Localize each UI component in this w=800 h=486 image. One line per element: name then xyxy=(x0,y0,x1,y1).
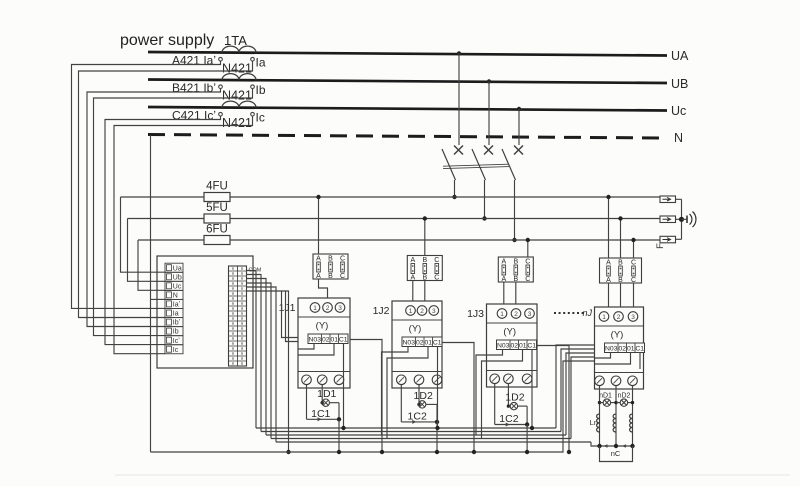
breaker blade A xyxy=(442,149,456,180)
arrester fuse F3 xyxy=(660,236,676,243)
relay 1J3 bottom terminals xyxy=(490,374,532,384)
bus UA xyxy=(148,49,689,63)
junction on bus UC xyxy=(517,107,521,111)
wire: F1 to common xyxy=(676,198,682,200)
wire: switch leg B lower xyxy=(484,180,486,219)
breaker blade C xyxy=(502,149,516,180)
svg-text:C421 Icʼ: C421 Icʼ xyxy=(172,109,216,123)
junction: leg B to distribution wire xyxy=(482,216,486,220)
wire: COM 2 to bottom bundle xyxy=(247,275,262,432)
svg-text:C1: C1 xyxy=(527,342,536,349)
wire: N stub into strip xyxy=(151,298,166,300)
wire: relay 1J1 right-side return to N bundle xyxy=(350,340,382,453)
svg-text:1C2: 1C2 xyxy=(408,410,427,422)
wire: relay 1J3 N row internal routing xyxy=(487,350,533,367)
bundle wire 3 xyxy=(266,434,566,436)
svg-text:1C2: 1C2 xyxy=(499,413,518,425)
dotted continuation line xyxy=(554,312,584,314)
svg-text:B: B xyxy=(328,256,333,263)
wire: switch leg C lower xyxy=(514,180,516,240)
svg-text:A: A xyxy=(410,275,415,282)
wire: 5FU to terminal strip xyxy=(128,219,166,282)
junction lamp 1D1 output xyxy=(337,417,341,421)
relay 1J2 bottom terminals xyxy=(397,375,442,385)
svg-text:1: 1 xyxy=(313,305,317,312)
svg-text:F: F xyxy=(655,243,666,249)
svg-text:UA: UA xyxy=(671,49,689,63)
svg-text:1: 1 xyxy=(500,311,504,318)
lamp nD2 xyxy=(614,399,634,406)
wire: COM 1 to bottom bundle xyxy=(247,271,257,429)
svg-text:5FU: 5FU xyxy=(206,202,228,214)
bundle wire 1 xyxy=(256,427,556,429)
relay 1J1 bottom terminals xyxy=(302,375,344,385)
junction COM6/N xyxy=(286,450,290,454)
indicator lamp 1D2 assembly xyxy=(401,385,437,424)
terminal block T1J2 (A B C) xyxy=(407,256,442,282)
wire: CT B terminal Ib to terminal strip xyxy=(94,88,253,335)
CT phase A secondary terminals xyxy=(219,57,255,61)
svg-text:2: 2 xyxy=(617,314,621,321)
wire: relay 1J2 N row internal routing xyxy=(392,347,438,364)
svg-text:Ic: Ic xyxy=(256,111,265,125)
fuse 4FU xyxy=(204,181,230,202)
wire: block 1J3 to relay top xyxy=(504,282,516,304)
wire: switch leg A lower xyxy=(454,180,456,197)
svg-text:1J2: 1J2 xyxy=(373,305,390,317)
svg-text:A: A xyxy=(606,260,611,267)
wire: block nJ to relay top xyxy=(609,283,634,307)
wire: relay 1J2 C1 terminal down to bundle xyxy=(437,363,439,428)
wire: relay 1J1 C1 terminal down to bundle xyxy=(343,360,345,428)
svg-text:6FU: 6FU xyxy=(206,224,228,236)
wire: feeds to block nJ A B C xyxy=(609,197,634,258)
wire: block 1J2 to relay top xyxy=(413,281,425,302)
svg-text:A: A xyxy=(501,259,506,266)
junction: leg C to distribution wire xyxy=(512,238,516,242)
relay nJ terminal row N03 02 01 C1 xyxy=(605,343,645,353)
CT phase C secondary terminals xyxy=(219,112,255,116)
junction: leg A to distribution wire xyxy=(452,195,456,199)
wire: 4FU to terminal strip xyxy=(121,197,166,272)
wire: 6FU line feed to block C (1J3) xyxy=(527,240,529,257)
CT 1TA phase A winding arcs xyxy=(222,46,256,52)
wire: relay 1J3 right-side return to N bundle xyxy=(537,346,569,453)
svg-text:(Y): (Y) xyxy=(503,327,516,338)
svg-text:nJ: nJ xyxy=(582,308,592,318)
svg-text:Ia: Ia xyxy=(173,311,179,318)
svg-text:C: C xyxy=(340,256,345,263)
svg-text:02: 02 xyxy=(618,345,626,352)
labels nD1 nD2 xyxy=(599,393,630,400)
svg-text:Iaʼ: Iaʼ xyxy=(173,301,181,309)
breaker blade B xyxy=(472,149,486,180)
wire: switch leg A upper xyxy=(458,54,460,146)
scan fold artifact line xyxy=(115,474,790,476)
svg-text:Ibʼ: Ibʼ xyxy=(173,319,181,327)
svg-text:N421: N421 xyxy=(222,116,252,130)
svg-text:3: 3 xyxy=(432,308,436,315)
wire: lamp 1D1 to N bundle xyxy=(338,419,340,452)
bus UB xyxy=(148,77,688,91)
svg-text:nC: nC xyxy=(611,449,621,458)
svg-text:02: 02 xyxy=(322,336,330,343)
svg-text:02: 02 xyxy=(510,342,518,349)
svg-text:B: B xyxy=(513,276,518,283)
fuse X mark leg B xyxy=(484,146,493,155)
wire: CT A terminal Ia to terminal strip xyxy=(79,61,253,318)
svg-text:01: 01 xyxy=(519,342,527,349)
svg-text:2: 2 xyxy=(326,305,330,312)
svg-text:Ua: Ua xyxy=(173,265,182,272)
svg-text:(Y): (Y) xyxy=(316,321,329,332)
inductor coil at x=632.5 xyxy=(630,414,633,432)
svg-text:2: 2 xyxy=(514,311,518,318)
svg-text:Uc: Uc xyxy=(173,283,182,290)
svg-text:Uc: Uc xyxy=(671,104,686,118)
wire: bundle risers into nJ xyxy=(556,345,595,428)
wire: relay 1J2 right-side return to N bundle xyxy=(442,343,474,453)
svg-text:B: B xyxy=(422,257,427,264)
svg-text:Ib: Ib xyxy=(256,83,266,97)
bus N (dashed) xyxy=(148,131,683,145)
bus Uc xyxy=(148,104,686,118)
junction lamp 1D2 output xyxy=(435,420,439,424)
terminal strip rows Ua..Ic xyxy=(165,263,183,354)
svg-text:C: C xyxy=(434,257,439,264)
relay 1J1 top terminals 1 2 3 xyxy=(310,303,345,313)
relay unit nJ box xyxy=(595,307,644,389)
wire: 6FU to terminal strip xyxy=(138,240,165,290)
svg-text:Ub: Ub xyxy=(173,274,182,281)
svg-text:C1: C1 xyxy=(635,345,644,352)
CT phase B secondary terminals xyxy=(219,85,255,89)
wire: left entries 1J3 xyxy=(476,355,487,435)
wire: bundle 5 into nC xyxy=(591,442,600,446)
arrester fuse F1 xyxy=(660,196,676,203)
breaker linkage bar (double line) xyxy=(443,164,509,168)
wire: 5FU line feed to block B (1J2) xyxy=(424,219,426,256)
svg-text:1: 1 xyxy=(409,308,413,315)
bundle wire 4 xyxy=(271,438,571,440)
relay 1J1 terminal row N03 02 01 C1 xyxy=(308,334,348,344)
svg-text:1J3: 1J3 xyxy=(467,308,484,320)
svg-text:4FU: 4FU xyxy=(206,181,228,193)
relay 1J2 top terminals 1 2 3 xyxy=(406,306,439,316)
wire: COM to 1J1 left entry xyxy=(282,291,299,338)
wire: relay 1J1 N row internal routing xyxy=(298,344,344,361)
svg-text:2: 2 xyxy=(420,308,424,315)
svg-text:1D2: 1D2 xyxy=(414,390,433,402)
bundle N wire (bottom) xyxy=(151,361,595,452)
wire: arrester common vertical xyxy=(681,199,683,239)
wire: CT C terminal Ic to terminal strip xyxy=(114,116,253,354)
terminal strip outer box xyxy=(157,256,253,368)
relay 1J3 top terminals 1 2 3 xyxy=(497,309,534,319)
terminal block TnJ (A B C) xyxy=(600,258,642,284)
svg-text:power supply: power supply xyxy=(120,32,214,49)
wire: F2 to common xyxy=(676,218,682,220)
svg-text:1D2: 1D2 xyxy=(505,392,524,404)
wire: left entries 1J2 xyxy=(382,352,393,435)
wire: lamp 1D2 to N bundle xyxy=(436,422,438,452)
lamp nD1 xyxy=(598,399,616,406)
relay nJ bottom terminals xyxy=(595,376,638,386)
relay unit 1J3 box xyxy=(487,304,538,387)
wire: CT B terminal B421 Ib&#700; to terminal strip xyxy=(87,88,221,326)
svg-text:C: C xyxy=(525,276,530,283)
wire: relay 1J3 C1 terminal down to bundle xyxy=(531,366,533,428)
bundle wire 2 xyxy=(261,431,561,433)
svg-text:Ic: Ic xyxy=(173,347,179,354)
svg-text:01: 01 xyxy=(627,345,635,352)
wire: F3 to common xyxy=(676,238,682,240)
svg-text:1TA: 1TA xyxy=(224,33,247,48)
svg-text:B: B xyxy=(422,275,427,282)
svg-text:3: 3 xyxy=(338,305,342,312)
fuse 6FU xyxy=(204,224,230,245)
svg-text:C: C xyxy=(631,277,636,284)
relay 1J2 terminal row N03 02 01 C1 xyxy=(402,337,442,347)
svg-text:N: N xyxy=(173,293,178,300)
wire: CT A terminal A421 Ia&#700; to terminal strip xyxy=(72,61,221,309)
relay 1J3 terminal row N03 02 01 C1 xyxy=(497,340,537,350)
svg-text:C1: C1 xyxy=(339,336,348,343)
svg-text:N03: N03 xyxy=(309,336,322,343)
wire: distribution 4FU line xyxy=(121,196,661,198)
svg-text:C1: C1 xyxy=(433,339,442,346)
relay unit 1J1 box xyxy=(298,298,350,388)
svg-text:3: 3 xyxy=(631,314,635,321)
svg-text:A: A xyxy=(606,277,611,284)
svg-text:Ib: Ib xyxy=(173,329,179,336)
svg-text:N03: N03 xyxy=(403,339,416,346)
wire: coil bottom bus nC xyxy=(600,445,633,447)
indicator lamp 1D2 assembly xyxy=(495,384,527,427)
indicator lamp 1D1 assembly xyxy=(307,385,340,422)
wire: lamp 1D2 to N bundle xyxy=(526,425,528,453)
svg-text:3: 3 xyxy=(528,311,532,318)
svg-text:A: A xyxy=(316,256,321,263)
wire: switch leg C upper xyxy=(518,109,520,145)
terminal block T1J3 (A B C) xyxy=(498,257,533,283)
svg-text:C: C xyxy=(631,260,636,267)
inductor coil at x=599.5 xyxy=(597,414,600,432)
junction on bus UA xyxy=(457,51,461,55)
svg-text:02: 02 xyxy=(416,339,424,346)
svg-text:B421 Ibʼ: B421 Ibʼ xyxy=(172,81,216,95)
svg-text:B: B xyxy=(618,260,623,267)
svg-text:N03: N03 xyxy=(605,345,618,352)
CT 1TA phase C winding arcs xyxy=(222,101,256,108)
arrester fuse F2 xyxy=(660,216,676,223)
terminal strip COM block xyxy=(229,266,247,366)
svg-text:B: B xyxy=(618,277,623,284)
junction: arrester common xyxy=(679,217,684,222)
svg-text:A: A xyxy=(501,276,506,283)
svg-text:(Y): (Y) xyxy=(611,330,624,341)
relay nJ top terminals 1 2 3 xyxy=(599,312,638,322)
wire: COM 5 to bottom bundle xyxy=(247,287,277,442)
svg-text:N: N xyxy=(674,131,683,145)
wire: 4FU line feed to block A (1J1) xyxy=(318,197,320,254)
svg-text:B: B xyxy=(513,259,518,266)
svg-text:B: B xyxy=(328,273,333,280)
wire: switch leg B upper xyxy=(488,82,490,146)
wire: distribution 5FU line xyxy=(128,218,661,220)
wire: COM 6 down to N wire xyxy=(247,291,289,452)
svg-text:C: C xyxy=(340,273,345,280)
relay unit 1J2 box xyxy=(392,301,442,388)
earth/antenna symbol xyxy=(682,212,696,228)
CT 1TA phase B winding arcs xyxy=(222,74,256,81)
svg-text:(Y): (Y) xyxy=(409,324,422,335)
wire: nJ bottom terminals down xyxy=(600,386,633,446)
svg-text:nD1: nD1 xyxy=(599,393,612,400)
junction on bus UB xyxy=(487,79,491,83)
svg-text:C: C xyxy=(434,275,439,282)
svg-text:1C1: 1C1 xyxy=(311,408,330,420)
wire: CT C terminal C421 Ic&#700; to terminal strip xyxy=(105,116,221,345)
fuse X mark leg C xyxy=(514,146,523,155)
svg-text:N421: N421 xyxy=(222,89,252,103)
svg-text:01: 01 xyxy=(330,336,338,343)
svg-text:A421 Iaʼ: A421 Iaʼ xyxy=(172,54,216,68)
fuse X mark leg A xyxy=(454,146,463,155)
arrows on nC bus xyxy=(604,444,627,448)
wire: relay nJ N row internal routing xyxy=(595,353,641,370)
svg-text:Icʼ: Icʼ xyxy=(173,337,180,345)
svg-text:UB: UB xyxy=(671,77,688,91)
svg-text:A: A xyxy=(410,257,415,264)
bundle wire 5 xyxy=(276,441,591,443)
wire: COM 3 to bottom bundle xyxy=(247,279,267,436)
wire: distribution 6FU line xyxy=(138,239,660,241)
svg-text:01: 01 xyxy=(424,339,432,346)
svg-text:N03: N03 xyxy=(497,342,510,349)
svg-text:C: C xyxy=(525,259,530,266)
svg-text:1: 1 xyxy=(602,314,606,321)
junction lamp 1D2 output xyxy=(525,422,529,426)
svg-text:A: A xyxy=(316,273,321,280)
wire: COM 4 to bottom bundle xyxy=(247,283,272,439)
svg-text:Ia: Ia xyxy=(256,56,266,70)
inductor coil at x=616 xyxy=(613,414,616,432)
svg-text:1D1: 1D1 xyxy=(317,388,336,400)
terminal block T1J1 (A B C) xyxy=(313,254,348,280)
wire: nC lower loop xyxy=(600,446,633,462)
fuse 5FU xyxy=(204,202,230,223)
wire: block 1J1 to relay top xyxy=(319,279,328,298)
wire: N bus to terminal strip and bottom xyxy=(150,135,152,452)
